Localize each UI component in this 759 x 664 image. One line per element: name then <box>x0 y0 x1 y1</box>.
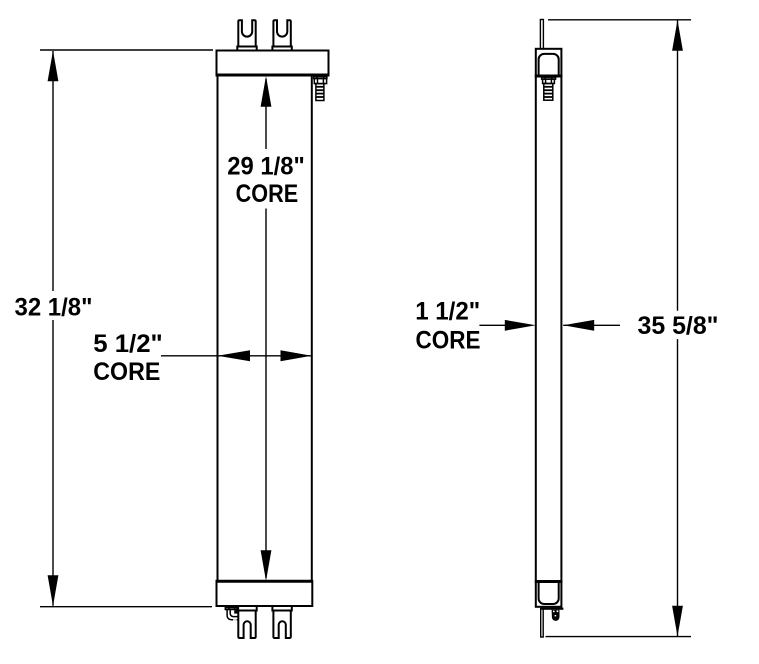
svg-text:CORE: CORE <box>93 358 160 386</box>
svg-text:35 5/8": 35 5/8" <box>638 312 719 340</box>
svg-text:1 1/2": 1 1/2" <box>415 298 480 326</box>
svg-text:32 1/8": 32 1/8" <box>15 294 93 322</box>
svg-text:5 1/2": 5 1/2" <box>93 330 163 358</box>
svg-text:CORE: CORE <box>236 180 299 208</box>
svg-text:29 1/8": 29 1/8" <box>227 152 305 180</box>
svg-text:CORE: CORE <box>416 327 481 355</box>
